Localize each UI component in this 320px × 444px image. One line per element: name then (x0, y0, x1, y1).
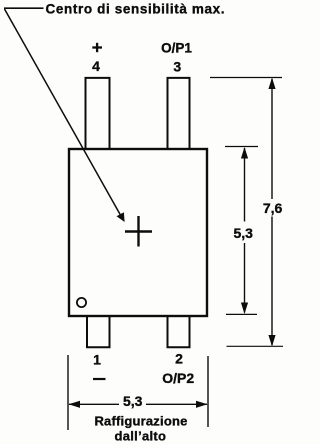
svg-text:4: 4 (92, 58, 100, 74)
dim 7,6: vertical line upper (271, 79, 273, 199)
dim 5,3 bottom: right arrow (196, 401, 208, 408)
svg-text:dall’alto: dall’alto (114, 429, 166, 444)
dim 5,3 bottom: line left part (69, 403, 119, 405)
pin 4 (86, 78, 110, 148)
dim 7,6: vertical line lower (271, 217, 273, 346)
leader wire: diagonal segment (5, 9, 122, 216)
label + (pin 4 polarity) (92, 43, 102, 52)
dim 7,6: bottom arrow (268, 335, 275, 347)
svg-text:3: 3 (173, 59, 181, 75)
svg-text:1: 1 (93, 352, 101, 368)
label - (pin 1 polarity) (93, 378, 106, 380)
pin 1 indicator circle (77, 298, 86, 307)
dim 5,3 right: top arrow (241, 147, 248, 159)
sensitivity-centre cross mark (125, 216, 152, 247)
pin 2 (168, 316, 190, 347)
svg-text:5,3: 5,3 (233, 225, 253, 241)
dim 5,3 bottom: line right part (146, 403, 207, 405)
svg-text:Centro di sensibilità max.: Centro di sensibilità max. (46, 1, 226, 16)
leader wire: horizontal segment (4, 7, 44, 9)
svg-text:O/P2: O/P2 (162, 370, 194, 386)
svg-text:7,6: 7,6 (263, 200, 283, 216)
package body outline (69, 149, 207, 316)
leader arrowhead (117, 212, 125, 222)
dim 5,3 right: bottom extension line (226, 313, 257, 315)
dim 7,6: bottom extension line (227, 345, 284, 347)
svg-text:Raffigurazione: Raffigurazione (94, 413, 187, 428)
svg-text:O/P1: O/P1 (161, 40, 192, 55)
dim 5,3 right: vertical line lower (244, 243, 246, 313)
dim 5,3 right: bottom arrow (241, 303, 248, 315)
dim 5,3 right: vertical line upper (244, 148, 246, 222)
dim 5,3 bottom: left arrow (69, 401, 81, 408)
dim 7,6: top arrow (268, 78, 275, 90)
pin 1 (87, 316, 110, 347)
svg-text:5,3: 5,3 (123, 393, 143, 409)
dim 5,3 bottom: right extension line (207, 356, 209, 427)
dim 5,3 bottom: left extension line (67, 355, 69, 430)
dim 5,3 right: top extension line (225, 146, 258, 148)
pin 3 (168, 78, 190, 148)
dim 7,6: top extension line (210, 77, 282, 79)
svg-text:2: 2 (175, 351, 183, 367)
